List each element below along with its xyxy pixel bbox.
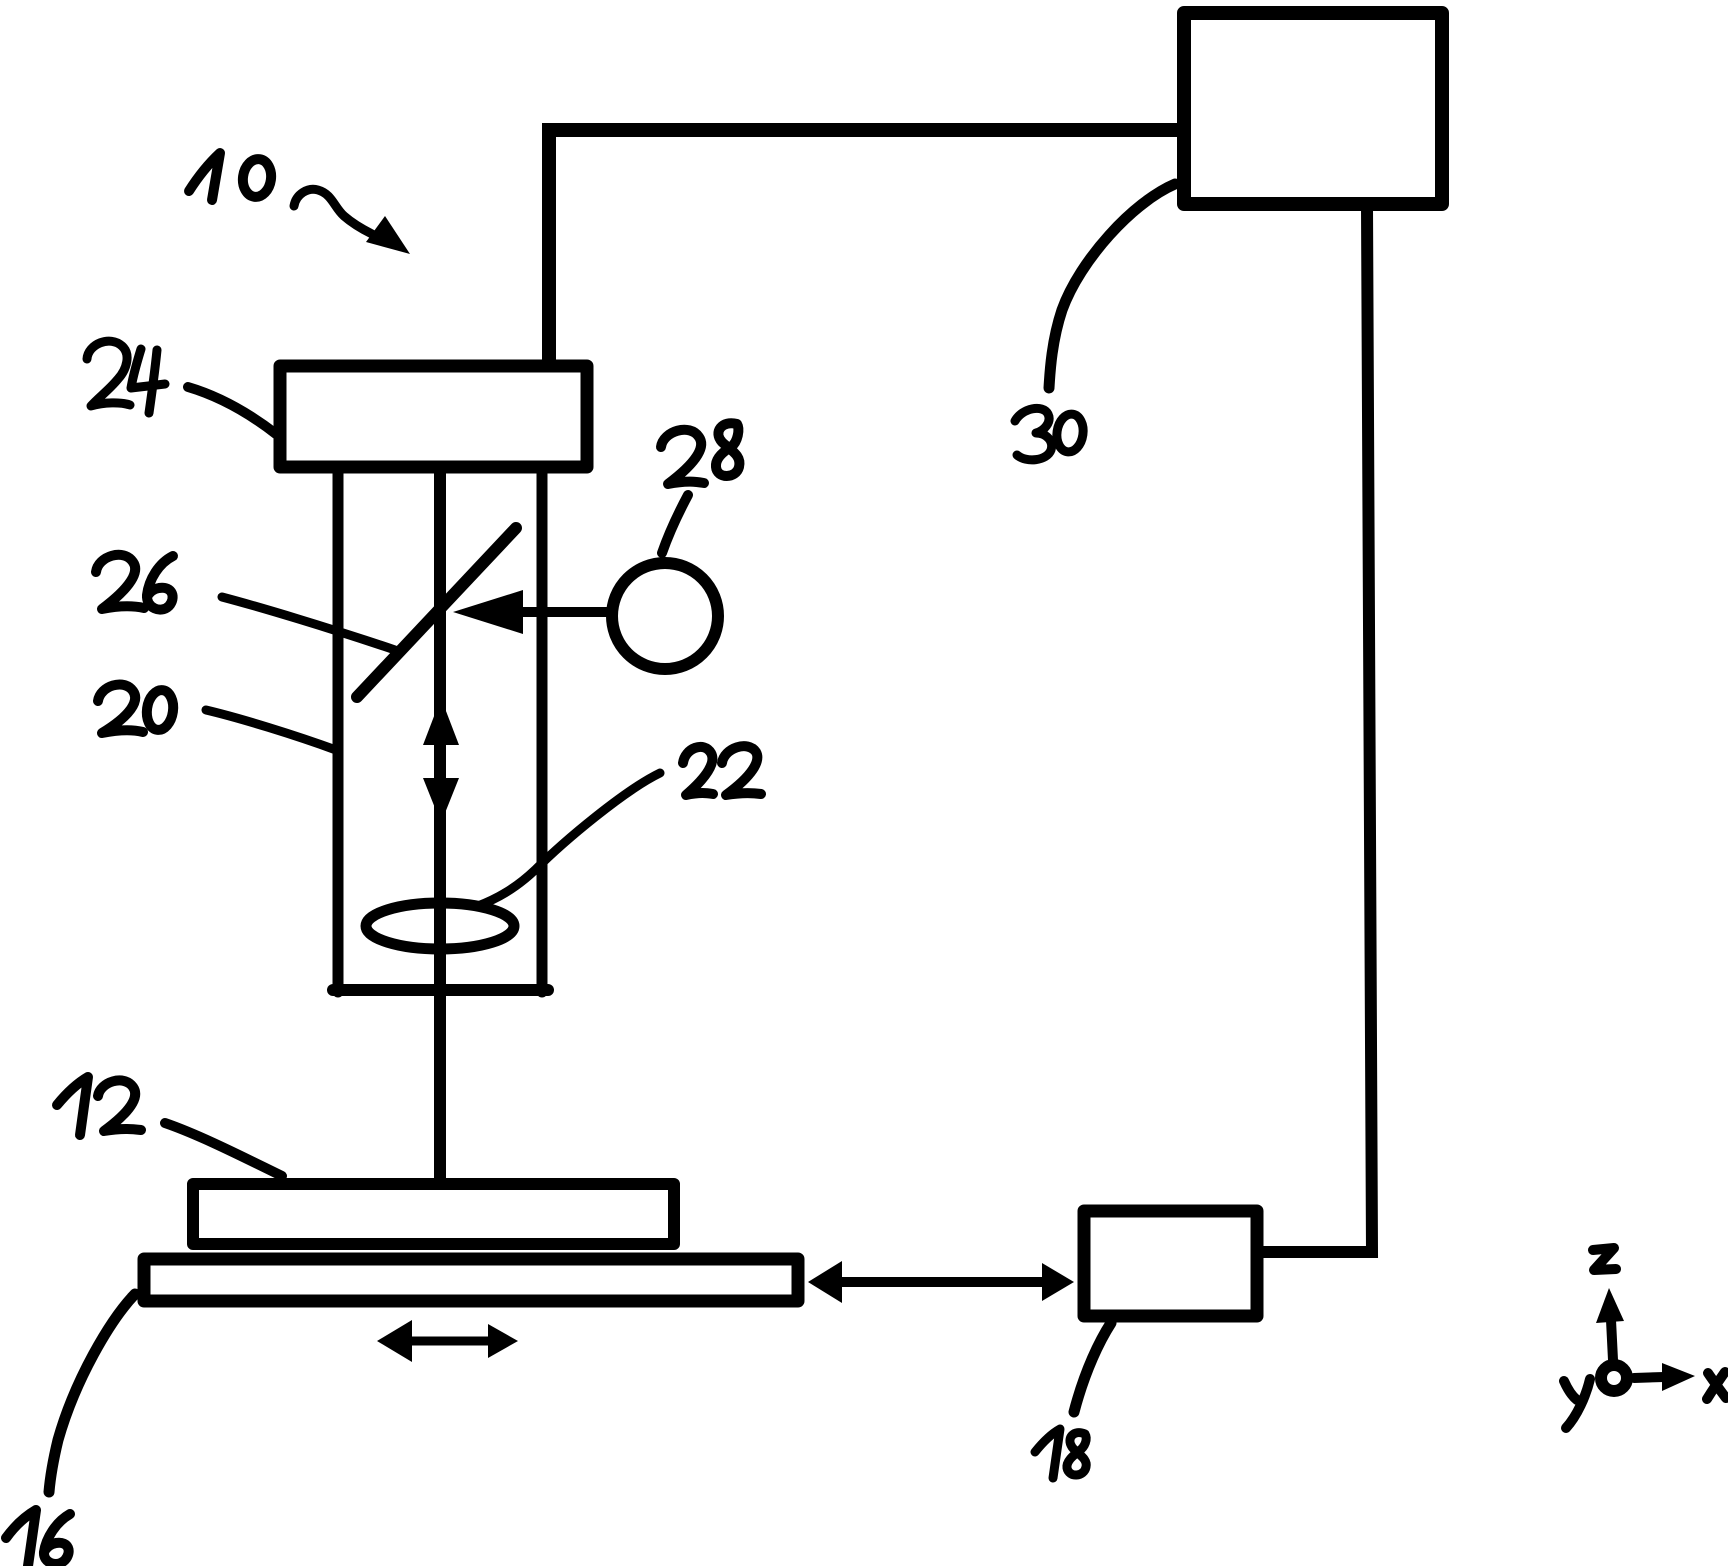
label 30 xyxy=(1015,408,1086,459)
drive 18 (bottom-right small box) xyxy=(1084,1211,1257,1316)
arrow from source 28 into beam splitter xyxy=(453,590,607,634)
leader line for 22 xyxy=(478,773,660,906)
label 24 xyxy=(87,341,165,413)
control unit 30 (top-right box) xyxy=(1184,13,1442,204)
label 12 xyxy=(57,1077,141,1135)
tube 20 left wall xyxy=(333,470,344,992)
label x xyxy=(1707,1372,1726,1399)
double-headed arrow between stage 16 and drive 18 xyxy=(808,1261,1074,1303)
label z xyxy=(1593,1248,1616,1270)
label 26 xyxy=(96,555,173,610)
optical axis vertical line xyxy=(434,470,446,1181)
label 18 xyxy=(1035,1429,1086,1478)
wire from housing 24 up and right to control unit 30 xyxy=(549,130,1182,368)
label 28 xyxy=(661,423,739,484)
leader line for 30 xyxy=(1049,184,1175,388)
light source circle 28 xyxy=(612,563,718,669)
double-headed arrow below stage xyxy=(377,1320,518,1362)
lens 22 (ellipse) xyxy=(366,903,514,949)
x axis arrow xyxy=(1634,1363,1695,1391)
leader line for 24 xyxy=(188,387,276,434)
leader line for 16 xyxy=(49,1294,135,1492)
stage 16 (lower slab) xyxy=(144,1259,798,1301)
box 24 (light source housing on top of tube) xyxy=(280,366,587,467)
label y xyxy=(1564,1379,1590,1428)
label 10 xyxy=(189,153,274,200)
label 16 xyxy=(6,1510,70,1566)
label 20 xyxy=(98,684,176,733)
leader line for 20 xyxy=(206,710,336,750)
wire from control unit 30 down to drive 18 xyxy=(1258,206,1372,1252)
beam splitter 26 (diagonal) xyxy=(357,528,516,697)
workpiece 12 (upper slab) xyxy=(193,1184,674,1244)
tube 20 bottom edge xyxy=(333,984,548,996)
double-headed vertical arrow on optical axis xyxy=(423,698,459,823)
z axis arrow xyxy=(1596,1288,1624,1360)
leader line for 28 xyxy=(662,495,688,553)
leader line for 12 xyxy=(165,1123,282,1176)
squiggle arrow from label 10 xyxy=(294,189,410,254)
tube 20 right wall xyxy=(537,470,548,992)
leader line for 18 xyxy=(1074,1323,1111,1412)
coordinate axes origin (circle with dot) xyxy=(1601,1365,1627,1391)
leader line for 26 xyxy=(222,597,395,650)
label 22 xyxy=(683,746,761,795)
